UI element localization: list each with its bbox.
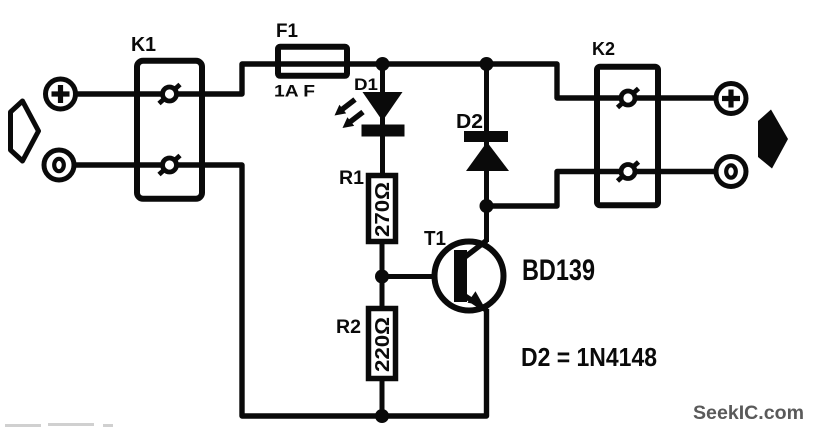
svg-text:D1: D1 bbox=[354, 75, 378, 94]
svg-text:1A F: 1A F bbox=[274, 82, 315, 101]
K1 connector box bbox=[137, 61, 202, 199]
resistor R2 220 ohm bbox=[369, 309, 396, 379]
LED D1 bbox=[362, 92, 405, 137]
svg-text:R1: R1 bbox=[339, 168, 364, 189]
svg-text:F1: F1 bbox=[276, 21, 298, 42]
D1 light arrow (upper) bbox=[335, 100, 356, 116]
wire: base to transistor bbox=[382, 274, 455, 279]
wire: D1/R1/R2 vertical branch bbox=[380, 64, 386, 416]
fuse F1 bbox=[278, 47, 347, 76]
transistor T1 bbox=[435, 206, 504, 311]
terminal + (input) bbox=[46, 79, 76, 109]
K1 contact (bottom) bbox=[159, 156, 180, 175]
terminal 0 (input) bbox=[44, 150, 74, 180]
node: top junction at D2 bbox=[480, 57, 494, 71]
resistor R1 270 ohm bbox=[369, 176, 396, 242]
K2 contact (top) bbox=[618, 89, 639, 108]
svg-text:D2: D2 bbox=[456, 111, 483, 133]
svg-text:T1: T1 bbox=[424, 228, 446, 250]
wire: input 0 through K1, down left side, along bottom, up to emitter bbox=[74, 165, 487, 416]
svg-text:D2 = 1N4148: D2 = 1N4148 bbox=[521, 342, 657, 372]
K2 connector box bbox=[597, 67, 658, 206]
K2 contact (bottom) bbox=[618, 162, 639, 181]
terminal + (output) bbox=[716, 84, 746, 114]
K1 contact (top) bbox=[159, 85, 180, 104]
svg-text:K1: K1 bbox=[131, 34, 156, 56]
scan artifact bottom edge bbox=[5, 423, 113, 427]
svg-text:R2: R2 bbox=[336, 317, 361, 338]
node: base junction bbox=[375, 270, 389, 284]
diode D2 bbox=[464, 131, 509, 171]
input arrow bbox=[11, 101, 39, 161]
node: lower junction at D2/collector bbox=[480, 199, 494, 213]
wire: D2 vertical branch bbox=[484, 64, 489, 206]
svg-text:K2: K2 bbox=[592, 39, 615, 59]
node: bottom junction bbox=[375, 409, 389, 423]
terminal 0 (output) bbox=[716, 157, 746, 187]
node: top junction at D1 bbox=[376, 57, 390, 71]
D1 light arrow (lower) bbox=[343, 112, 364, 128]
wire: input + through K1, up to fuse, across top, down into K2, to output + bbox=[76, 64, 716, 98]
svg-text:SeekIC.com: SeekIC.com bbox=[693, 403, 804, 424]
svg-text:BD139: BD139 bbox=[522, 254, 595, 287]
svg-text:270Ω: 270Ω bbox=[372, 182, 394, 237]
svg-text:220Ω: 220Ω bbox=[372, 317, 394, 372]
wire: lower junction to K2 bottom, to output 0 bbox=[487, 172, 717, 207]
output arrow bbox=[758, 110, 788, 169]
